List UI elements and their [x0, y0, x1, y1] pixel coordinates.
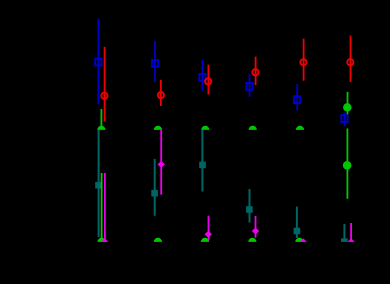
green top-panel clipped marker col5: [296, 126, 304, 130]
teal filled square marker col4: [246, 206, 253, 213]
teal error bar col4: [249, 189, 251, 223]
magenta filled diamond marker col2: [158, 161, 165, 168]
blue open square marker col1: [95, 59, 101, 66]
blue error bar col4: [249, 74, 251, 97]
blue error bar col1: [97, 19, 99, 105]
magenta error bar col2: [160, 130, 162, 195]
green top-panel clipped marker col1: [97, 126, 105, 130]
blue open square marker col2: [152, 60, 158, 67]
red open circle marker col5: [300, 59, 306, 65]
green top-panel clipped marker col3: [201, 126, 209, 130]
blue error bar col3: [202, 60, 204, 91]
red error bar col2: [160, 80, 162, 106]
teal filled square marker col2: [151, 190, 158, 197]
teal error bar col1: [98, 130, 100, 237]
red error bar col6: [350, 36, 352, 82]
green bottom-panel filled circle marker col6: [343, 161, 352, 170]
blue error bar col6: [344, 113, 346, 127]
green top-panel clipped marker col2: [154, 126, 162, 130]
red open circle marker col3: [205, 78, 211, 84]
blue open square marker col6: [341, 115, 347, 122]
green top-panel error bar col1: [100, 109, 102, 127]
blue error bar col5: [296, 84, 298, 110]
teal clipped square marker col6: [341, 238, 348, 242]
red error bar col5: [303, 39, 305, 81]
red error bar col3: [207, 65, 209, 95]
magenta error bar col3: [208, 216, 210, 241]
blue open square marker col5: [294, 96, 300, 103]
green top-panel clipped marker col4: [249, 126, 257, 130]
teal error bar col2: [154, 159, 156, 216]
magenta error bar col1: [104, 173, 106, 242]
teal filled square marker col3: [199, 162, 206, 169]
blue open square marker col3: [199, 74, 205, 81]
green bottom-panel error bar col1: [101, 173, 103, 242]
red open circle marker col4: [252, 69, 258, 75]
green bottom-panel clipped marker col4: [248, 238, 256, 242]
green bottom-panel clipped marker col2: [154, 238, 162, 242]
teal filled square marker col5: [294, 228, 301, 235]
green top-panel error bar col6: [347, 92, 349, 118]
blue open square marker col4: [246, 83, 252, 90]
red open circle marker col6: [347, 59, 353, 65]
magenta filled diamond marker col4: [252, 228, 259, 235]
teal error bar col3: [201, 130, 203, 192]
teal filled square marker col1: [95, 182, 102, 189]
green bottom-panel clipped marker col3: [201, 238, 209, 242]
magenta error bar col4: [255, 216, 257, 238]
magenta filled diamond marker col3: [205, 231, 212, 238]
magenta clipped diamond marker col1: [101, 238, 108, 242]
red error bar col1: [104, 47, 106, 122]
blue error bar col2: [154, 41, 156, 82]
green bottom-panel clipped marker col1: [98, 238, 106, 242]
red open circle marker col1: [101, 93, 107, 99]
teal error bar col6: [343, 224, 345, 242]
magenta clipped diamond marker col5: [300, 238, 307, 242]
red error bar col4: [255, 57, 257, 85]
magenta error bar col6: [350, 223, 352, 242]
teal error bar col5: [296, 207, 298, 238]
red open circle marker col2: [158, 92, 164, 98]
green top-panel filled circle marker col6: [343, 103, 352, 112]
green bottom-panel clipped marker col5: [295, 238, 303, 242]
green bottom-panel error bar col6: [346, 129, 348, 199]
magenta clipped diamond marker col6: [347, 238, 354, 242]
